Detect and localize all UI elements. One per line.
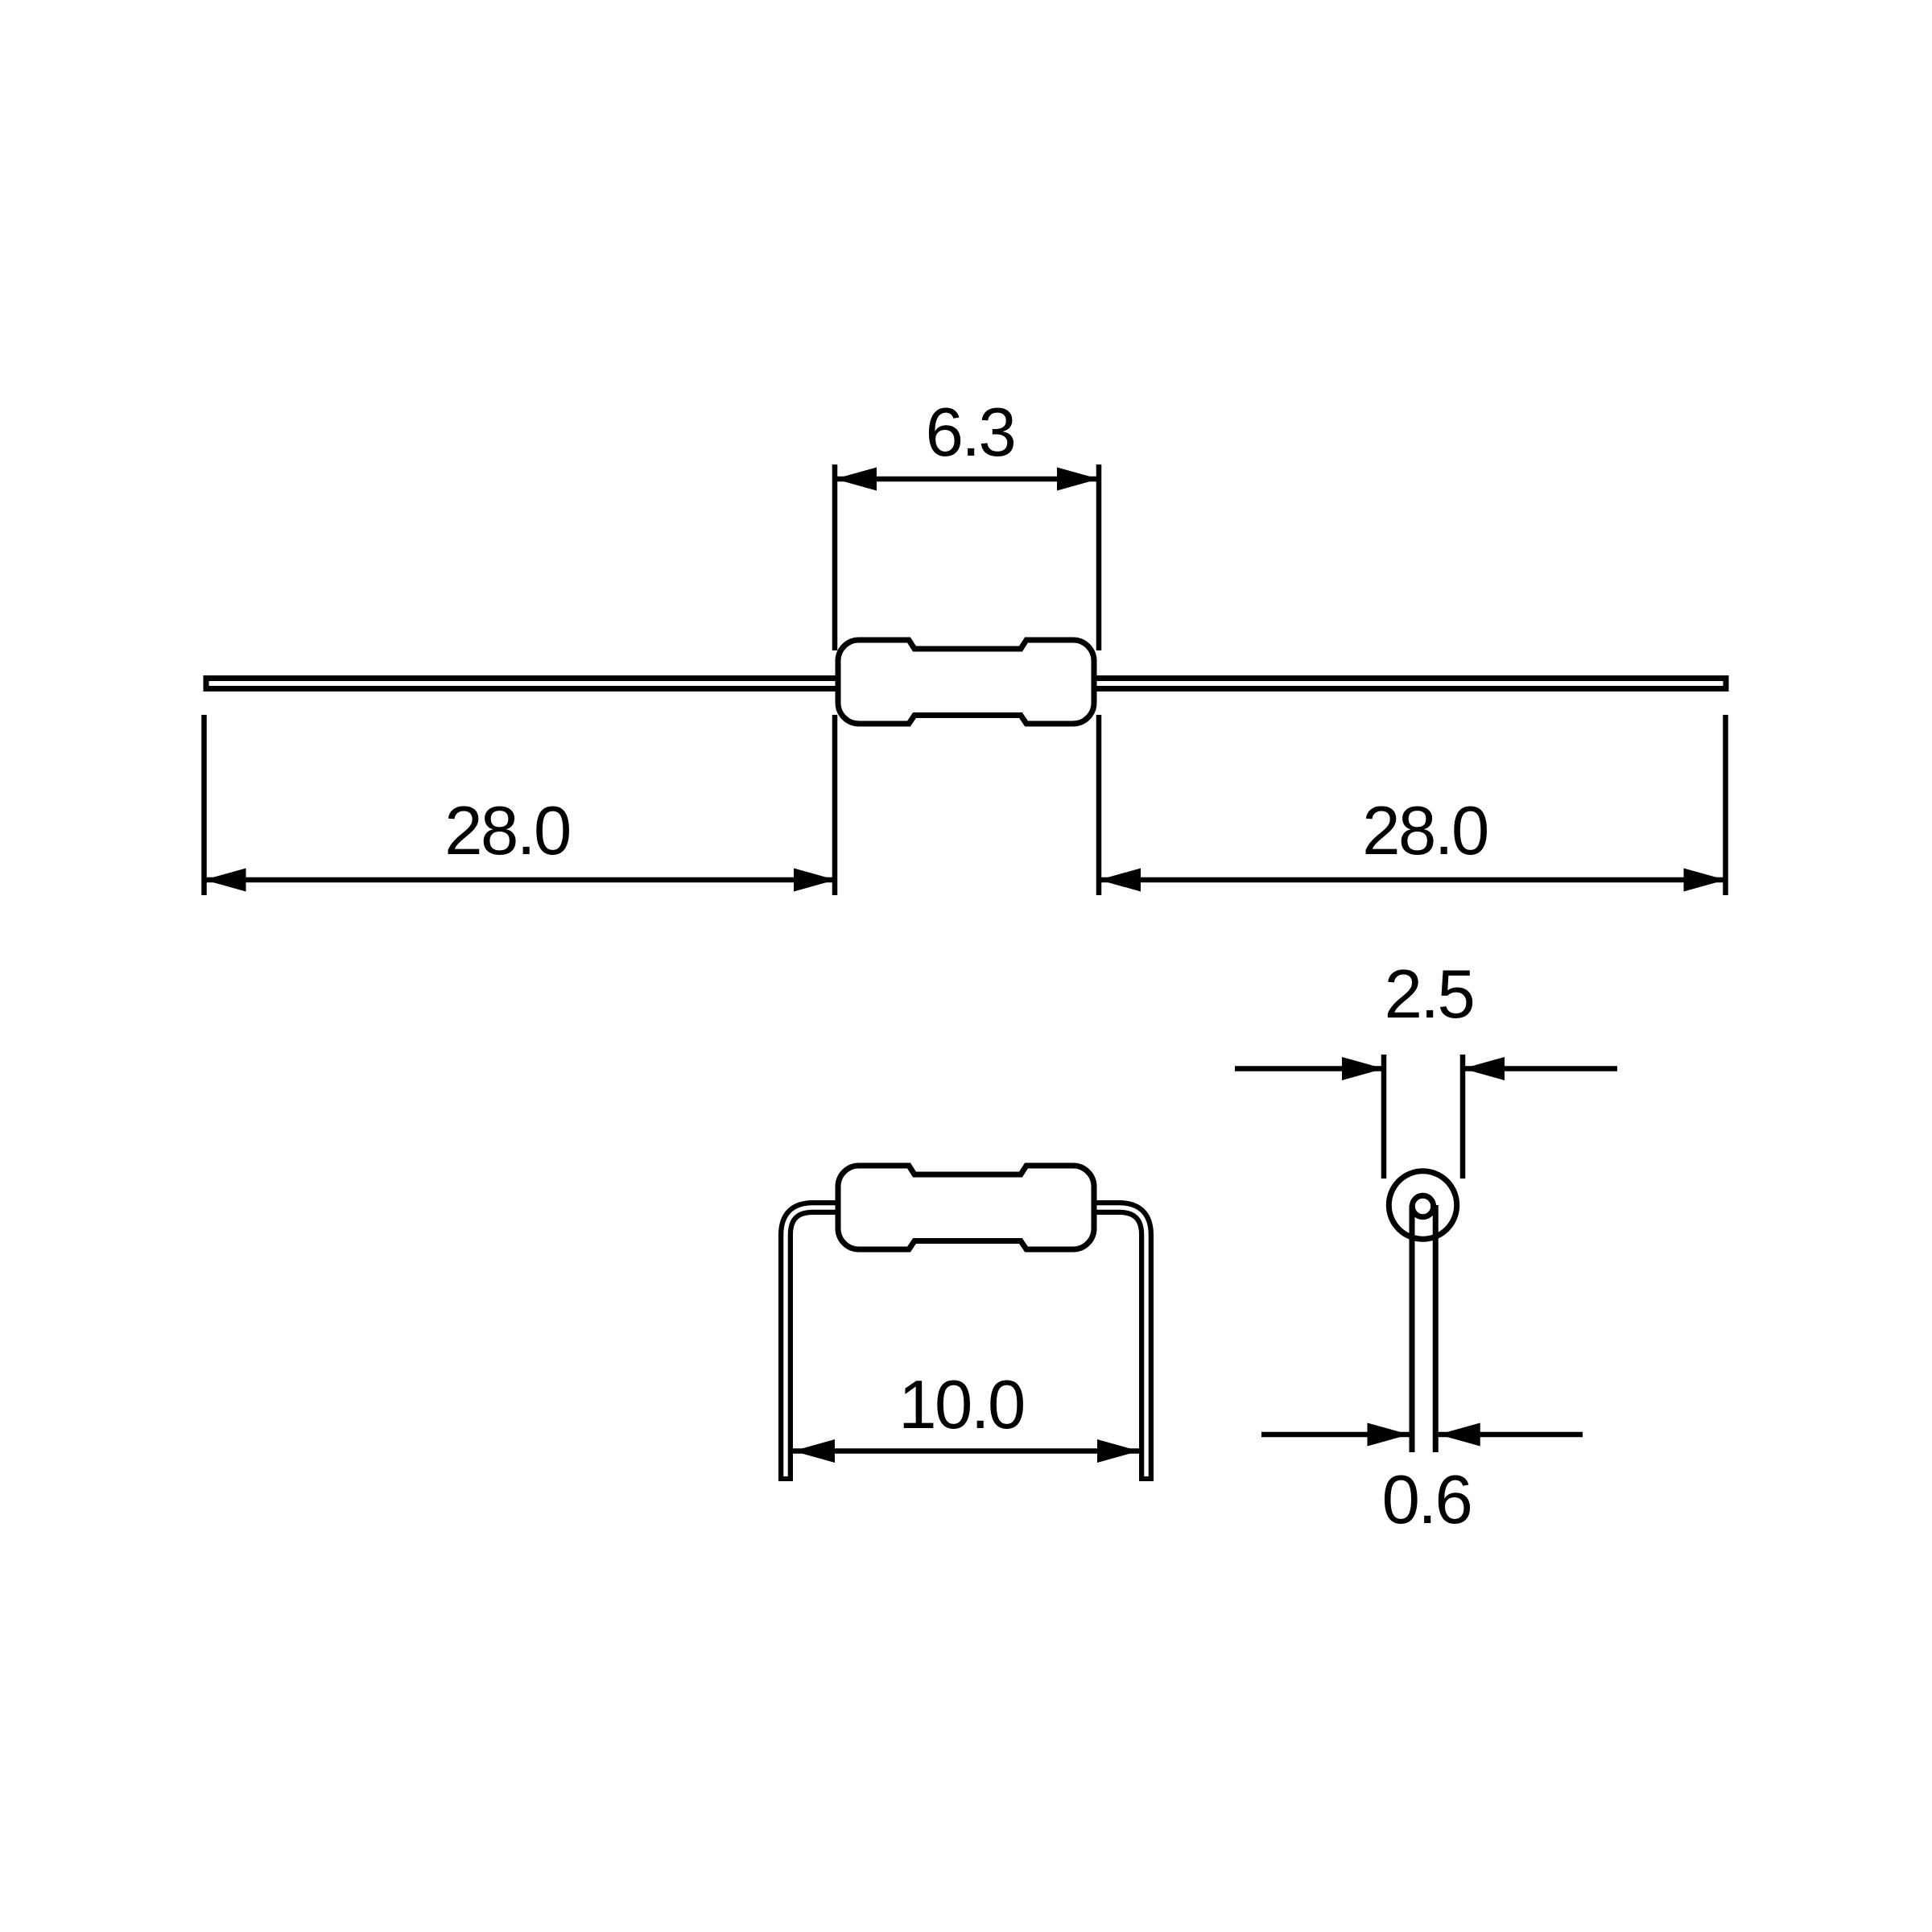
- resistor body (top view): [838, 640, 1094, 724]
- extension line (2.5 left): [1381, 1055, 1387, 1179]
- dimension line 2.5: [1235, 1057, 1617, 1080]
- dimension line 28.0 (left): [204, 869, 836, 892]
- extension line (28.0 right dim, at wire right end): [1723, 715, 1728, 895]
- lead wire (end view, going down): [1412, 1205, 1435, 1452]
- svg-text:28.0: 28.0: [444, 793, 569, 869]
- extension line (2.5 right): [1460, 1055, 1466, 1179]
- dimension line 0.6: [1261, 1423, 1583, 1447]
- extension line (28.0 left dim, at body left): [832, 715, 838, 895]
- body outline circle (end view): [1389, 1171, 1456, 1239]
- left bent lead (formed view): [786, 1207, 838, 1481]
- extension line (6.3 right, above body): [1096, 464, 1102, 650]
- extension line (28.0 right dim, at body right): [1096, 715, 1102, 895]
- dimension line 6.3: [835, 468, 1099, 491]
- extension line (6.3 left, above body): [832, 464, 838, 650]
- svg-text:10.0: 10.0: [898, 1367, 1023, 1443]
- dimension line 28.0 (right): [1099, 869, 1726, 892]
- extension line (28.0 left dim, at wire left end): [201, 715, 207, 895]
- svg-text:28.0: 28.0: [1362, 793, 1487, 869]
- dimension line 10.0: [793, 1439, 1139, 1463]
- svg-text:0.6: 0.6: [1382, 1462, 1472, 1538]
- lead cross-section circle (end view): [1412, 1195, 1433, 1216]
- wire (axial lead, top view): [204, 675, 1729, 691]
- right bent lead (formed view): [1094, 1207, 1146, 1481]
- svg-text:6.3: 6.3: [926, 394, 1015, 471]
- svg-text:2.5: 2.5: [1385, 956, 1474, 1033]
- resistor body (formed view): [838, 1166, 1094, 1249]
